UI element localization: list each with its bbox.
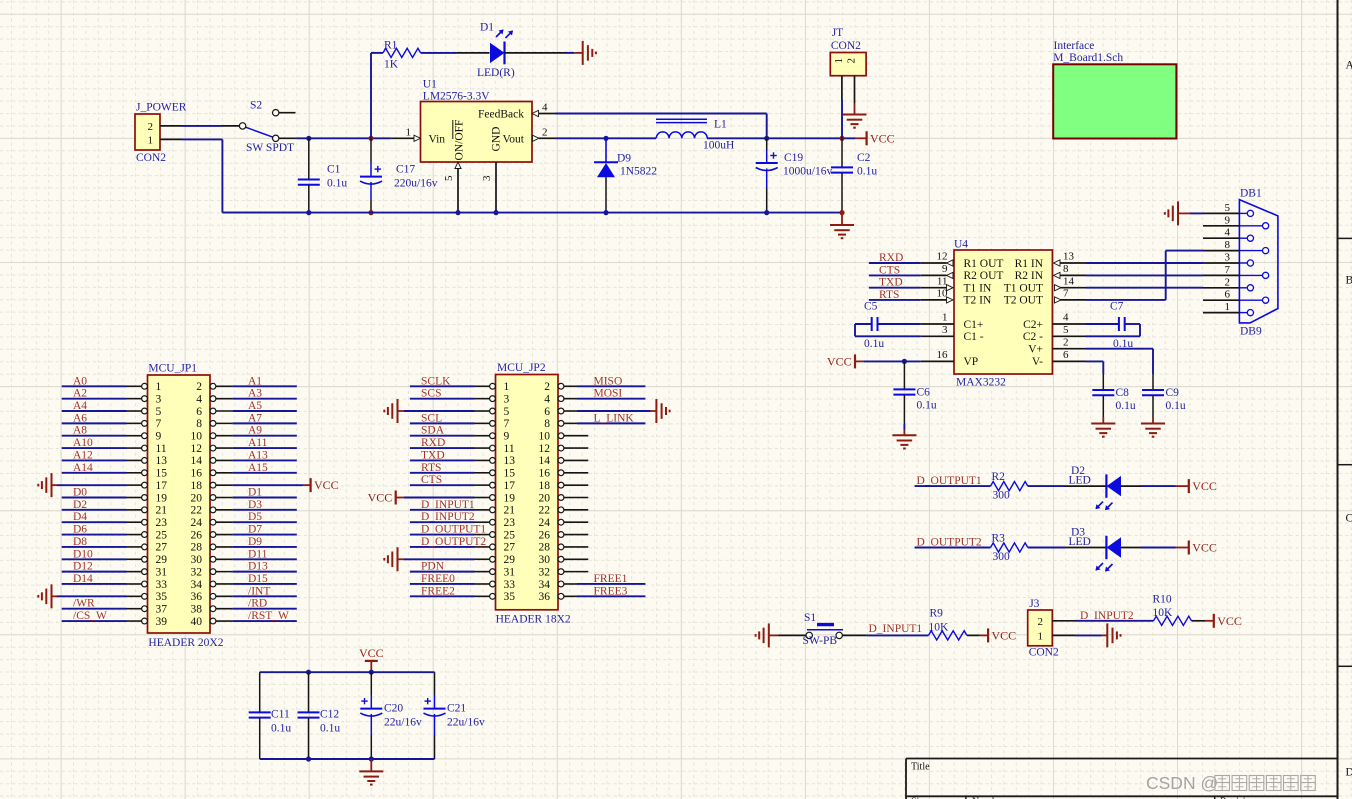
svg-text:32: 32 <box>539 566 551 578</box>
svg-text:30: 30 <box>539 554 551 566</box>
junction VCC at C2 <box>839 136 844 141</box>
svg-text:12: 12 <box>191 443 203 455</box>
svg-text:SW SPDT: SW SPDT <box>246 142 294 154</box>
MCU_JP2 pin 13 (TXD) <box>490 458 496 464</box>
svg-text:16: 16 <box>937 349 949 361</box>
svg-text:S1: S1 <box>804 612 816 624</box>
svg-text:5: 5 <box>1063 324 1069 336</box>
MCU_JP1 pin 33 (D14) <box>142 581 148 587</box>
svg-text:A4: A4 <box>73 400 87 412</box>
svg-text:22u/16v: 22u/16v <box>384 717 422 729</box>
MCU_JP1 pin 6 (A5) <box>210 408 216 414</box>
svg-text:D_INPUT1: D_INPUT1 <box>421 499 475 511</box>
MCU_JP2 pin 24 (nc) <box>558 519 564 525</box>
MCU_JP2 pin 18 (nc) <box>558 482 564 488</box>
MCU_JP2 pin 7 (SCL) <box>490 420 496 426</box>
DB1 pin 6 <box>1203 299 1239 301</box>
svg-text:2: 2 <box>544 381 550 393</box>
wire U4 T1OUT to DB1.2 <box>1086 287 1203 289</box>
svg-text:CTS: CTS <box>421 474 442 486</box>
wire U4 R1IN to DB1.3 <box>1086 262 1203 264</box>
svg-text:12: 12 <box>539 443 551 455</box>
svg-text:MAX3232: MAX3232 <box>956 376 1006 388</box>
connector JT body <box>830 53 866 76</box>
capacitor C2 <box>841 100 843 138</box>
svg-text:C6: C6 <box>917 386 931 398</box>
svg-text:D10: D10 <box>73 548 93 560</box>
MCU_JP1 pin 23 (D4) <box>142 519 148 525</box>
svg-text:D13: D13 <box>248 561 268 573</box>
MCU_JP1 pin 30 (D11) <box>210 556 216 562</box>
svg-text:R2 OUT: R2 OUT <box>964 270 1004 282</box>
MCU_JP1 pin 37 (/WR) <box>142 606 148 612</box>
voltage regulator U1 body <box>421 102 533 163</box>
svg-text:30: 30 <box>191 554 203 566</box>
svg-text:18: 18 <box>539 480 551 492</box>
svg-text:29: 29 <box>504 554 516 566</box>
svg-text:100uH: 100uH <box>703 140 734 152</box>
svg-text:9: 9 <box>1225 214 1231 226</box>
svg-text:6: 6 <box>544 406 550 418</box>
svg-text:29: 29 <box>156 554 168 566</box>
resistor R10 <box>1154 616 1192 625</box>
capacitor C7 and loop wire <box>1086 323 1119 325</box>
svg-text:VCC: VCC <box>870 131 895 145</box>
junction at C6 <box>902 359 907 364</box>
svg-text:JT: JT <box>832 27 844 39</box>
svg-text:CSDN @: CSDN @ <box>1146 773 1218 793</box>
IC U4 body <box>954 250 1052 374</box>
svg-text:Vin: Vin <box>429 133 446 145</box>
MCU_JP1 pin 19 (D0) <box>142 495 148 501</box>
svg-text:D2: D2 <box>73 499 87 511</box>
svg-text:3: 3 <box>156 393 162 405</box>
diode D1 LED <box>456 52 490 54</box>
svg-text:2: 2 <box>1063 336 1069 348</box>
wire R1 branch <box>370 53 372 138</box>
svg-text:LED: LED <box>1069 536 1091 548</box>
svg-text:35: 35 <box>156 591 168 603</box>
svg-text:26: 26 <box>191 529 203 541</box>
svg-text:J3: J3 <box>1029 598 1039 610</box>
svg-text:MCU_JP2: MCU_JP2 <box>497 362 546 374</box>
MCU_JP2 pin 22 (nc) <box>558 507 564 513</box>
svg-text:FREE1: FREE1 <box>594 573 628 585</box>
MCU_JP2 pin 23 (D_INPUT2) <box>490 519 496 525</box>
svg-text:D7: D7 <box>248 524 262 536</box>
svg-text:A8: A8 <box>73 425 87 437</box>
svg-text:26: 26 <box>539 529 551 541</box>
svg-text:A3: A3 <box>248 388 262 400</box>
power port VCC at U4 VP <box>854 354 856 368</box>
bottom rail wire <box>222 212 842 214</box>
svg-text:2: 2 <box>196 381 202 393</box>
svg-text:34: 34 <box>191 579 203 591</box>
svg-text:FeedBack: FeedBack <box>478 108 524 120</box>
wire D3 to VCC <box>1141 547 1176 549</box>
wire VCC to U4.VP <box>864 360 921 362</box>
svg-text:22u/16v: 22u/16v <box>447 717 485 729</box>
svg-text:A: A <box>1346 60 1352 72</box>
svg-text:U4: U4 <box>954 239 968 251</box>
svg-text:DB9: DB9 <box>1240 326 1262 338</box>
svg-text:9: 9 <box>504 431 510 443</box>
svg-text:17: 17 <box>504 480 516 492</box>
svg-text:10: 10 <box>539 431 551 443</box>
svg-text:1: 1 <box>942 312 948 324</box>
svg-text:A14: A14 <box>73 462 93 474</box>
svg-text:SW-PB: SW-PB <box>803 635 838 647</box>
svg-text:R1: R1 <box>384 39 398 51</box>
svg-text:A10: A10 <box>73 437 93 449</box>
MCU_JP2 pin 29 (GND) <box>490 556 496 562</box>
MCU_JP2 pin 19 (VCC) <box>490 495 496 501</box>
svg-text:D_OUTPUT2: D_OUTPUT2 <box>421 536 486 548</box>
MCU_JP2 pin 36 (FREE3) <box>558 593 564 599</box>
svg-text:19: 19 <box>156 492 168 504</box>
svg-text:11: 11 <box>504 443 515 455</box>
svg-text:17: 17 <box>156 480 168 492</box>
svg-text:T2 OUT: T2 OUT <box>1004 295 1043 307</box>
MCU_JP1 pin 24 (D5) <box>210 519 216 525</box>
MCU_JP1 pin 39 (/CS_W) <box>142 618 148 624</box>
svg-text:23: 23 <box>504 517 516 529</box>
svg-text:TXD: TXD <box>421 449 445 461</box>
svg-text:LED: LED <box>1069 475 1091 487</box>
svg-text:11: 11 <box>937 275 948 287</box>
DB1 pin 5 <box>1203 212 1239 214</box>
wire U4 T2OUT to DB1.8 <box>1086 299 1166 301</box>
svg-text:33: 33 <box>156 579 168 591</box>
wire R1 to D1 <box>421 52 456 54</box>
svg-text:C2: C2 <box>857 152 871 164</box>
svg-text:D_OUTPUT1: D_OUTPUT1 <box>917 475 982 487</box>
svg-text:R2: R2 <box>992 471 1006 483</box>
svg-text:A11: A11 <box>248 437 268 449</box>
svg-text:CON2: CON2 <box>136 152 166 164</box>
svg-text:32: 32 <box>191 566 203 578</box>
switch S1 SW-PB <box>779 634 807 636</box>
svg-text:7: 7 <box>1225 264 1231 276</box>
wire L1 to VCC <box>707 137 855 139</box>
MCU_JP1 pin 15 (A14) <box>142 470 148 476</box>
svg-text:4: 4 <box>1225 227 1231 239</box>
ground at DB1 pin5 <box>1190 212 1203 214</box>
MCU_JP2 pin 31 (PDN) <box>490 569 496 575</box>
junction C1 bottom <box>306 210 311 215</box>
svg-text:/CS_W: /CS_W <box>73 610 107 622</box>
svg-text:16: 16 <box>191 468 203 480</box>
ground at J3 pin1 <box>1102 634 1108 636</box>
MCU_JP1 pin 13 (A12) <box>142 458 148 464</box>
DB1 pin 4 <box>1203 237 1239 239</box>
svg-text:12: 12 <box>937 251 948 263</box>
svg-text:D5: D5 <box>248 511 262 523</box>
svg-text:24: 24 <box>191 517 203 529</box>
svg-text:300: 300 <box>993 490 1011 502</box>
sheet border right edge <box>1337 0 1339 799</box>
MCU_JP1 pin 38 (/RD) <box>210 606 216 612</box>
MCU_JP2 pin 27 (D_OUTPUT2) <box>490 544 496 550</box>
svg-text:VCC: VCC <box>368 490 393 504</box>
connector J_POWER body <box>135 114 160 150</box>
junction at C1 top <box>306 136 311 141</box>
header MCU_JP1 body <box>148 375 211 633</box>
power port VCC R10 <box>1205 620 1214 622</box>
svg-text:21: 21 <box>156 505 168 517</box>
svg-text:/RST_W: /RST_W <box>248 610 289 622</box>
DB1 pin 2 <box>1203 287 1239 289</box>
svg-text:28: 28 <box>191 542 203 554</box>
junction C2 bottom <box>839 210 844 215</box>
MCU_JP2 pin 35 (FREE2) <box>490 593 496 599</box>
wire R2 to D2 <box>1028 485 1065 487</box>
svg-text:D15: D15 <box>248 573 268 585</box>
svg-text:D8: D8 <box>73 536 87 548</box>
svg-text:5: 5 <box>504 406 510 418</box>
diode D3 LED <box>1065 547 1106 549</box>
svg-text:FREE2: FREE2 <box>421 585 455 597</box>
svg-text:3: 3 <box>481 175 493 181</box>
MCU_JP2 pin 5 (GND) <box>490 408 496 414</box>
svg-text:M_Board1.Sch: M_Board1.Sch <box>1053 52 1123 64</box>
diode D2 LED <box>1065 485 1106 487</box>
svg-text:R10: R10 <box>1153 594 1172 606</box>
svg-text:1: 1 <box>1038 630 1044 642</box>
svg-text:D4: D4 <box>73 511 87 523</box>
svg-text:R9: R9 <box>930 608 944 620</box>
svg-text:5: 5 <box>156 406 162 418</box>
svg-text:D11: D11 <box>248 548 268 560</box>
ground at S1 <box>768 623 770 647</box>
svg-text:A1: A1 <box>248 375 262 387</box>
MCU_JP2 pin 12 (nc) <box>558 445 564 451</box>
svg-text:LM2576-3.3V: LM2576-3.3V <box>423 90 490 102</box>
MCU_JP1 pin 31 (D12) <box>142 569 148 575</box>
svg-text:35: 35 <box>504 591 516 603</box>
svg-text:10K: 10K <box>1153 607 1174 619</box>
svg-text:VCC: VCC <box>1192 479 1217 493</box>
MCU_JP1 pin 32 (D13) <box>210 569 216 575</box>
MCU_JP1 pin 17 (GND) <box>142 482 148 488</box>
svg-text:MCU_JP1: MCU_JP1 <box>148 363 197 375</box>
MCU_JP1 pin 8 (A7) <box>210 420 216 426</box>
MCU_JP1 pin 9 (A8) <box>142 433 148 439</box>
svg-text:4: 4 <box>542 101 548 113</box>
svg-text:2: 2 <box>1225 276 1231 288</box>
svg-text:19: 19 <box>504 492 516 504</box>
svg-text:1N5822: 1N5822 <box>620 166 657 178</box>
svg-text:D9: D9 <box>617 153 631 165</box>
wire D1 to ground <box>566 52 574 54</box>
MCU_JP2 pin 26 (nc) <box>558 532 564 538</box>
wire J_POWER.1 down and along bottom <box>182 138 222 140</box>
svg-text:/WR: /WR <box>73 598 95 610</box>
svg-text:T1 IN: T1 IN <box>964 283 992 295</box>
ground main rail <box>841 213 843 225</box>
MCU_JP1 pin 40 (/RST_W) <box>210 618 216 624</box>
svg-text:1000u/16v: 1000u/16v <box>783 166 832 178</box>
MCU_JP2 pin 4 (MOSI) <box>558 396 564 402</box>
svg-text:1: 1 <box>833 58 845 64</box>
MCU_JP2 pin 8 (L_LINK) <box>558 420 564 426</box>
resistor R2 <box>991 482 1028 491</box>
svg-text:20: 20 <box>191 492 203 504</box>
MCU_JP2 pin 6 (GND) <box>558 408 564 414</box>
svg-text:13: 13 <box>156 455 168 467</box>
svg-text:1: 1 <box>156 381 162 393</box>
MCU_JP2 pin 15 (RTS) <box>490 470 496 476</box>
svg-text:C9: C9 <box>1166 387 1180 399</box>
svg-text:4: 4 <box>544 393 550 405</box>
MCU_JP1 pin 29 (D10) <box>142 556 148 562</box>
svg-text:40: 40 <box>191 616 203 628</box>
svg-text:C8: C8 <box>1116 387 1130 399</box>
svg-text:C2 -: C2 - <box>1023 331 1043 343</box>
svg-text:0.1u: 0.1u <box>320 723 340 735</box>
MCU_JP2 pin 16 (nc) <box>558 470 564 476</box>
svg-text:10: 10 <box>191 431 203 443</box>
DB1 pin 3 <box>1203 262 1239 264</box>
svg-text:VP: VP <box>964 356 979 368</box>
svg-text:15: 15 <box>504 468 516 480</box>
svg-text:SCL: SCL <box>421 412 442 424</box>
svg-text:C1 -: C1 - <box>964 331 984 343</box>
capacitor C19 (polarized) <box>766 138 768 150</box>
wire J3.1 to ground <box>1075 634 1102 636</box>
svg-text:18: 18 <box>191 480 203 492</box>
ground bypass <box>370 759 372 771</box>
switch S2 <box>222 125 239 127</box>
svg-text:ON/OFF: ON/OFF <box>454 120 466 161</box>
MCU_JP1 pin 12 (A11) <box>210 445 216 451</box>
svg-text:36: 36 <box>191 591 203 603</box>
svg-text:R1 IN: R1 IN <box>1015 258 1044 270</box>
MCU_JP1 pin 14 (A13) <box>210 458 216 464</box>
power port VCC bypass <box>365 660 378 662</box>
wire J_POWER.2 to S2 <box>182 125 222 127</box>
svg-text:14: 14 <box>1063 275 1075 287</box>
svg-text:VCC: VCC <box>827 354 852 368</box>
svg-text:C19: C19 <box>784 152 803 164</box>
capacitor C8 <box>1092 389 1114 391</box>
junction U1 pin3 bottom <box>493 210 498 215</box>
MCU_JP1 pin 18 (VCC) <box>210 482 216 488</box>
svg-text:2: 2 <box>846 58 858 64</box>
svg-text:9: 9 <box>942 263 948 275</box>
inductor L1 <box>656 118 707 120</box>
svg-text:Interface: Interface <box>1054 40 1095 52</box>
svg-text:25: 25 <box>504 529 516 541</box>
svg-text:1: 1 <box>1225 301 1231 313</box>
svg-text:SCS: SCS <box>421 388 441 400</box>
MCU_JP2 pin 34 (FREE1) <box>558 581 564 587</box>
svg-text:C20: C20 <box>384 703 403 715</box>
svg-text:SCLK: SCLK <box>421 375 451 387</box>
MCU_JP1 pin 27 (D8) <box>142 544 148 550</box>
svg-text:300: 300 <box>993 551 1011 563</box>
svg-text:C2+: C2+ <box>1023 319 1043 331</box>
capacitor C6 <box>903 361 905 389</box>
wire R9 to VCC <box>967 634 979 636</box>
MCU_JP2 pin 3 (SCS) <box>490 396 496 402</box>
svg-text:A12: A12 <box>73 449 93 461</box>
svg-text:A5: A5 <box>248 400 262 412</box>
svg-text:25: 25 <box>156 529 168 541</box>
power port VCC main <box>855 137 867 139</box>
svg-text:C7: C7 <box>1110 301 1124 313</box>
junction at C19 <box>764 136 769 141</box>
svg-text:VCC: VCC <box>359 646 384 660</box>
svg-text:HEADER 18X2: HEADER 18X2 <box>496 614 571 626</box>
MCU_JP2 pin 25 (D_OUTPUT1) <box>490 532 496 538</box>
svg-text:3: 3 <box>504 393 510 405</box>
svg-text:A6: A6 <box>73 412 87 424</box>
svg-text:4: 4 <box>196 393 202 405</box>
svg-text:7: 7 <box>504 418 510 430</box>
diode D9 (1N5822) <box>605 138 607 162</box>
svg-text:VCC: VCC <box>992 628 1017 642</box>
svg-text:23: 23 <box>156 517 168 529</box>
svg-text:1: 1 <box>406 126 412 138</box>
MCU_JP2 pin 14 (nc) <box>558 458 564 464</box>
svg-text:D_OUTPUT2: D_OUTPUT2 <box>917 536 982 548</box>
MCU_JP2 pin 32 (nc) <box>558 569 564 575</box>
junction U1 pin5 bottom <box>455 210 460 215</box>
svg-text:D_INPUT1: D_INPUT1 <box>869 623 923 635</box>
svg-text:D6: D6 <box>73 524 87 536</box>
svg-text:D_INPUT2: D_INPUT2 <box>421 511 475 523</box>
MCU_JP1 pin 5 (A4) <box>142 408 148 414</box>
MCU_JP1 pin 1 (A0) <box>142 383 148 389</box>
svg-text:7: 7 <box>1063 288 1069 300</box>
svg-text:6: 6 <box>1063 349 1069 361</box>
svg-text:PDN: PDN <box>421 561 445 573</box>
svg-text:31: 31 <box>504 566 516 578</box>
svg-text:MOSI: MOSI <box>594 388 623 400</box>
svg-text:RTS: RTS <box>421 462 441 474</box>
svg-text:D9: D9 <box>248 536 262 548</box>
MCU_JP2 pin 20 (nc) <box>558 495 564 501</box>
capacitor C20 (polarized) <box>370 672 372 695</box>
wire D2 to VCC <box>1141 485 1176 487</box>
svg-text:A13: A13 <box>248 449 268 461</box>
svg-text:V+: V+ <box>1028 344 1043 356</box>
ground at C8 <box>1102 417 1104 423</box>
svg-text:C: C <box>1346 513 1352 525</box>
svg-text:21: 21 <box>504 505 516 517</box>
header MCU_JP2 body <box>496 375 559 610</box>
svg-text:DB1: DB1 <box>1240 188 1262 200</box>
svg-text:/INT: /INT <box>248 585 270 597</box>
junction C19 bottom <box>764 210 769 215</box>
DB1 pin 7 <box>1203 274 1239 276</box>
MCU_JP1 pin 34 (D15) <box>210 581 216 587</box>
svg-text:A2: A2 <box>73 388 87 400</box>
svg-text:3: 3 <box>942 324 948 336</box>
svg-text:HEADER 20X2: HEADER 20X2 <box>148 637 223 649</box>
capacitor C12 <box>308 672 310 712</box>
MCU_JP2 pin 17 (CTS) <box>490 482 496 488</box>
svg-text:GND: GND <box>491 127 503 152</box>
MCU_JP1 pin 4 (A3) <box>210 396 216 402</box>
MCU_JP2 pin 33 (FREE0) <box>490 581 496 587</box>
svg-text:U1: U1 <box>423 78 437 90</box>
svg-text:T1 OUT: T1 OUT <box>1004 283 1043 295</box>
MCU_JP2 pin 10 (nc) <box>558 433 564 439</box>
svg-text:FREE3: FREE3 <box>594 585 628 597</box>
MCU_JP1 pin 11 (A10) <box>142 445 148 451</box>
